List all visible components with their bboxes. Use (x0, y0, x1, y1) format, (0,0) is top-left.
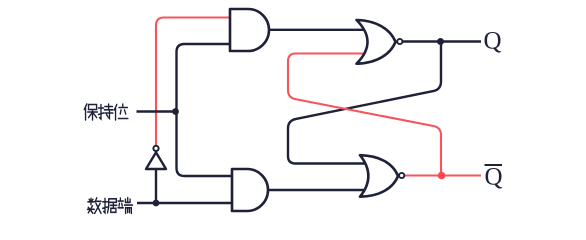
char 保 (84, 104, 97, 120)
char 持 (98, 104, 112, 119)
wire enable vertical down from node EN to bottom AND gate top input (177, 112, 238, 177)
wire data input line (数据端 through node D to bottom AND gate bottom input) (137, 202, 237, 204)
char 位 (114, 104, 128, 120)
node Q junction dot (437, 38, 444, 45)
bubble on inverter U5 output (153, 146, 158, 151)
wire Q-bar output line from bottom NOR bubble to Q-bar label (red) (405, 174, 482, 176)
wire bottom AND output to bottom NOR bottom input (268, 189, 372, 191)
node D junction dot (153, 200, 160, 207)
wire D-bar input (red) from inverter bubble up to top AND gate top input (156, 18, 235, 146)
wire inverter input stem from node D up to triangle (155, 168, 157, 203)
bubble on NOR gate U3 output (397, 39, 402, 44)
label Q output (484, 28, 502, 55)
node EN junction dot (172, 108, 179, 115)
AND gate U2 (232, 169, 268, 211)
wire Q output line from top NOR bubble to Q label (403, 40, 482, 42)
label 保持位 (hold bit) (84, 104, 128, 120)
wire top AND output to top NOR top input (269, 29, 370, 31)
node Q-bar junction dot (red) (438, 172, 446, 180)
svg-text:Q: Q (485, 164, 503, 191)
label Q-bar output with overline (485, 164, 503, 191)
wire enable input label line (保持位 to node EN) (137, 110, 177, 112)
wire enable vertical up from node EN to top AND gate bottom input (177, 44, 236, 112)
inverter U5 triangle (146, 152, 166, 169)
label 数据端 (data terminal) (87, 198, 132, 214)
wire Q feedback from node Q crossing down to bottom NOR top input (288, 42, 441, 164)
wire Q-bar feedback (red) from node Q-bar crossing up to top NOR bottom input (288, 54, 441, 176)
char 据 (103, 198, 117, 213)
char 端 (118, 198, 132, 214)
char 数 (87, 198, 101, 214)
NOR gate U3 (357, 20, 396, 64)
bubble on NOR gate U4 output (399, 173, 404, 178)
NOR gate U4 (360, 155, 398, 197)
svg-text:Q: Q (484, 28, 502, 55)
AND gate U1 (230, 9, 269, 51)
